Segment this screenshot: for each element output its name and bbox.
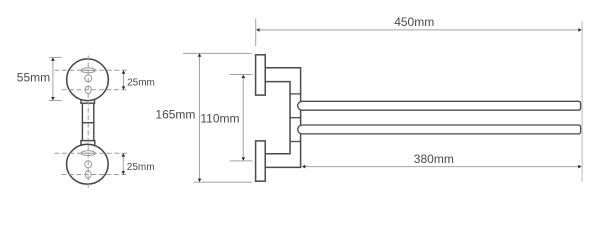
svg-text:450mm: 450mm xyxy=(394,15,434,29)
svg-text:380mm: 380mm xyxy=(414,152,454,166)
svg-text:25mm: 25mm xyxy=(127,77,155,88)
svg-text:110mm: 110mm xyxy=(200,112,239,126)
svg-text:165mm: 165mm xyxy=(155,108,195,122)
svg-text:25mm: 25mm xyxy=(127,162,155,173)
svg-text:55mm: 55mm xyxy=(17,71,50,85)
